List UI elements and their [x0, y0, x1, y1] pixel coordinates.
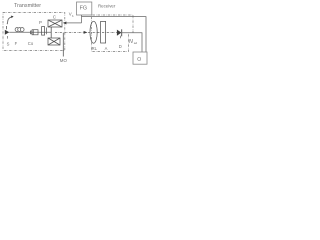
svg-text:ad: ad: [134, 41, 138, 45]
modulator crystal column: [50, 27, 52, 38]
wire FG down: [81, 15, 83, 23]
laser anode tick: [6, 26, 8, 29]
wire laser to junction: [9, 31, 51, 33]
receiver dashed box: [92, 15, 134, 52]
collimator Co: [30, 31, 32, 34]
svg-text:Receiver: Receiver: [98, 3, 116, 8]
wire FG to modulator: [66, 22, 82, 24]
svg-text:S: S: [7, 42, 10, 47]
beam arrowhead: [84, 31, 88, 34]
lens RL: [90, 21, 97, 43]
wire FG trigger to oscilloscope: [82, 17, 147, 52]
free-space beam dash-dot: [55, 31, 117, 33]
oscilloscope box O: [133, 52, 147, 64]
wire photodiode to oscilloscope: [122, 33, 142, 52]
FG box U1: [77, 2, 92, 15]
svg-text:RL: RL: [92, 46, 98, 51]
photodiode lead tick: [120, 36, 122, 39]
photodiode D: [117, 30, 122, 36]
leader tick for S: [7, 36, 9, 39]
modulator bottom electrode: [48, 38, 60, 45]
MO leader line: [62, 33, 64, 57]
svg-text:Co: Co: [28, 41, 34, 46]
polarization controller loops P: [15, 28, 19, 32]
svg-text:P: P: [39, 20, 42, 25]
modulator top electrode C: [48, 20, 62, 27]
svg-text:F: F: [15, 41, 18, 46]
svg-text:FG: FG: [80, 6, 88, 12]
aperture A: [101, 21, 106, 43]
modulation input arrow (squiggle): [7, 17, 12, 25]
svg-text:D: D: [119, 44, 122, 49]
arrowhead into modulator: [63, 22, 67, 25]
svg-text:MO: MO: [60, 58, 68, 63]
transmitter dashed box: [3, 13, 65, 51]
svg-text:O: O: [137, 57, 141, 63]
polarizer P plate: [42, 27, 45, 35]
svg-text:Transmitter: Transmitter: [14, 3, 41, 9]
svg-text:A: A: [105, 46, 108, 51]
laser diode S: [5, 30, 10, 35]
